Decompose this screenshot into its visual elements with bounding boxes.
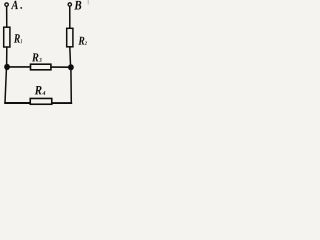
- label R3 subscript 3: [39, 58, 41, 62]
- label R2 letter R: [78, 37, 84, 45]
- junction node left: [4, 64, 10, 70]
- wire middle left: [7, 66, 30, 68]
- label R2 subscript 2: [85, 41, 87, 44]
- terminal B: [68, 3, 71, 6]
- label A: [11, 1, 18, 9]
- wire bottom right: [52, 102, 72, 104]
- wire B to R2: [69, 6, 71, 28]
- wire right junction to bottom-right corner: [70, 67, 72, 102]
- resistor R2: [67, 28, 73, 47]
- resistor R3: [31, 64, 51, 70]
- wire left junction to bottom-left corner: [5, 67, 7, 103]
- resistor R1: [4, 27, 10, 47]
- label R1 letter R: [14, 34, 20, 42]
- label R3 letter R: [32, 53, 39, 61]
- wire bottom left: [4, 102, 30, 104]
- resistor R4: [30, 98, 52, 104]
- label R4 subscript 4: [42, 91, 45, 95]
- label A period: [20, 7, 22, 9]
- wire A to R1: [6, 6, 8, 27]
- label R1 subscript 1: [21, 39, 22, 43]
- terminal A: [5, 3, 8, 6]
- label B: [74, 1, 81, 10]
- junction node right: [68, 64, 74, 70]
- wire R1 to left junction: [6, 48, 8, 68]
- wire R2 to right junction: [69, 47, 72, 67]
- smudge top right: [88, 0, 89, 5]
- wire middle right: [51, 66, 69, 68]
- label R4 letter R: [35, 86, 42, 94]
